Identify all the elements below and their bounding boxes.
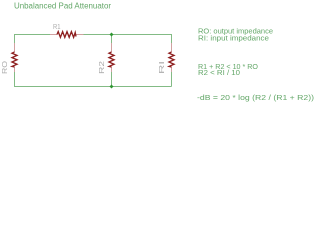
svg-text:-dB = 20 * log (R2 / (R1 + R2): -dB = 20 * log (R2 / (R1 + R2)) xyxy=(197,95,314,102)
svg-text:R2 < RI / 10: R2 < RI / 10 xyxy=(198,70,240,77)
svg-text:R1: R1 xyxy=(53,24,61,31)
svg-text:R2: R2 xyxy=(99,61,106,74)
svg-text:RI: input impedance: RI: input impedance xyxy=(198,36,269,43)
svg-text:RO: RO xyxy=(2,60,9,74)
svg-text:Unbalanced Pad Attenuator: Unbalanced Pad Attenuator xyxy=(14,2,111,11)
svg-text:RI: RI xyxy=(159,61,166,74)
svg-text:RO: output impedance: RO: output impedance xyxy=(198,29,273,36)
